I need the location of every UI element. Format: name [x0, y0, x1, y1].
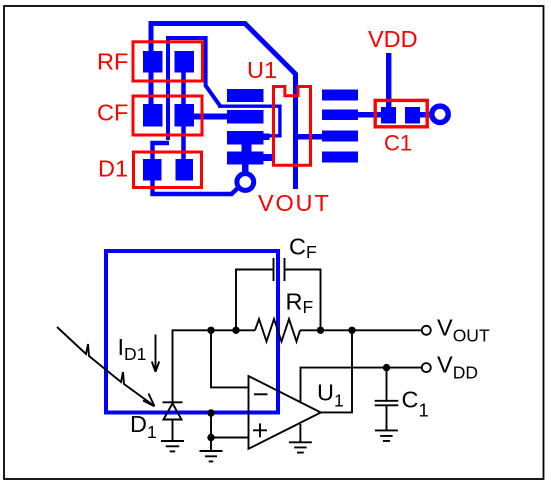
annotation box C1	[375, 100, 427, 126]
wire: vertical RF right pad - CF right pad - D1 right pad	[181, 60, 186, 170]
pad C1 right	[405, 107, 420, 124]
pad U1 pin1 (top left)	[227, 89, 264, 102]
op-amp minus sign	[254, 393, 268, 395]
wire: VDD rail / U1 box top	[301, 368, 422, 402]
svg-text:D1: D1	[130, 411, 157, 442]
wire: top trace from RF left pad to U1 via diagonal (VOUT net)	[151, 24, 296, 190]
op-amp plus sign	[253, 423, 267, 437]
pad U1 pin7 (to C1)	[322, 110, 381, 121]
wire: stub U1 pin4 to via	[242, 165, 249, 175]
pad U1 pin6 with VOUT bar	[293, 131, 358, 142]
pad CF right	[175, 104, 195, 127]
test point ring right of C1	[432, 106, 448, 122]
capacitor CF right plate	[284, 258, 286, 281]
junction dot feedback-left	[207, 327, 214, 334]
wire: anode node to ground and opamp + input	[211, 412, 249, 438]
svg-text:U1: U1	[247, 57, 277, 83]
wire: C1 left feed	[370, 112, 381, 118]
wire: C1 right to test point	[420, 112, 432, 118]
svg-text:RF: RF	[286, 289, 314, 318]
junction dot VDD tap	[383, 364, 390, 371]
annotation box D1	[134, 152, 202, 188]
wire: stub between U1 pin3 and pin4	[242, 145, 252, 152]
photodiode D1 cathode bar	[163, 401, 183, 403]
pad D1 right	[176, 159, 194, 181]
terminal VDD	[422, 363, 431, 372]
wire: VDD vertical trace	[386, 53, 391, 109]
pad U1 pin4 with bar right	[227, 152, 272, 165]
capacitor C1 bottom plate	[375, 404, 399, 406]
svg-text:C1: C1	[402, 387, 429, 421]
pad U1 pin8 (top right)	[322, 90, 358, 101]
pad C1 left	[381, 107, 396, 124]
annotation box CF	[133, 96, 202, 135]
capacitor C1 top plate	[375, 400, 399, 402]
pad U1 pin5 (bottom right)	[322, 152, 358, 163]
svg-text:CF: CF	[289, 234, 317, 263]
wire: CF branch up from node	[236, 270, 273, 331]
ground under C1	[375, 430, 398, 441]
wire: feedback node down to D1 cathode	[173, 330, 256, 402]
wire: vertical RF left pad to CF left pad	[149, 52, 154, 110]
annotation box U1 with notch	[274, 87, 311, 166]
junction dot output	[348, 327, 355, 334]
ground under anode node	[200, 451, 223, 461]
op-amp U1 triangle	[249, 376, 321, 449]
wire: ground stem below anode node	[210, 438, 212, 452]
svg-text:ID1: ID1	[118, 334, 147, 364]
svg-text:CF: CF	[97, 100, 128, 126]
ground stem under op-amp	[299, 424, 301, 442]
current arrow ID1	[152, 335, 159, 372]
capacitor CF left plate	[273, 258, 275, 281]
photodiode D1 triangle	[164, 403, 182, 419]
svg-text:VDD: VDD	[437, 352, 478, 383]
junction dot anode on module edge	[207, 409, 214, 416]
annotation box RF	[133, 42, 203, 81]
pad U1 pin2 with input trace from CF	[194, 110, 264, 124]
svg-text:C1: C1	[384, 131, 412, 156]
wire: jog from mid vertical to D1 left pad and bottom run to via	[153, 143, 240, 194]
wire: feedback output segment to VOUT	[300, 329, 422, 331]
junction dot + input tap	[207, 434, 214, 441]
wire: bracket trace around RF box (feedback net)	[168, 38, 220, 140]
wire: D1 anode to ground	[172, 420, 174, 442]
junction dot RC join	[317, 327, 324, 334]
ground under D1	[161, 441, 184, 451]
photodiode module outline (blue box)	[106, 251, 278, 413]
ground under op-amp	[289, 442, 312, 452]
terminal VOUT	[422, 326, 431, 335]
pad CF left	[143, 104, 163, 127]
resistor RF zigzag	[255, 319, 300, 342]
wire: opamp output and U1 box right edge up to VOUT wire	[321, 330, 352, 412]
svg-text:U1: U1	[317, 380, 344, 411]
pad RF left	[143, 51, 163, 73]
wire: C1 to ground	[386, 405, 388, 430]
junction dot CF tap	[232, 327, 239, 334]
light arrow (lightning bolt)	[57, 327, 155, 406]
pad U1 pin3 with stub right	[227, 131, 270, 145]
wire: inverting input from node	[211, 330, 249, 387]
via ring near D1	[237, 174, 254, 191]
svg-text:RF: RF	[97, 49, 128, 75]
pad D1 left	[143, 159, 162, 181]
pad RF right	[175, 51, 195, 73]
svg-text:D1: D1	[98, 156, 128, 182]
svg-text:VDD: VDD	[368, 26, 418, 52]
wire: VDD tap to C1	[386, 368, 388, 401]
wire: thin trace to U1 pin 3 hook	[218, 106, 280, 136]
svg-text:VOUT: VOUT	[437, 315, 490, 346]
svg-text:VOUT: VOUT	[258, 190, 330, 216]
wire: CF to output node	[286, 270, 321, 331]
